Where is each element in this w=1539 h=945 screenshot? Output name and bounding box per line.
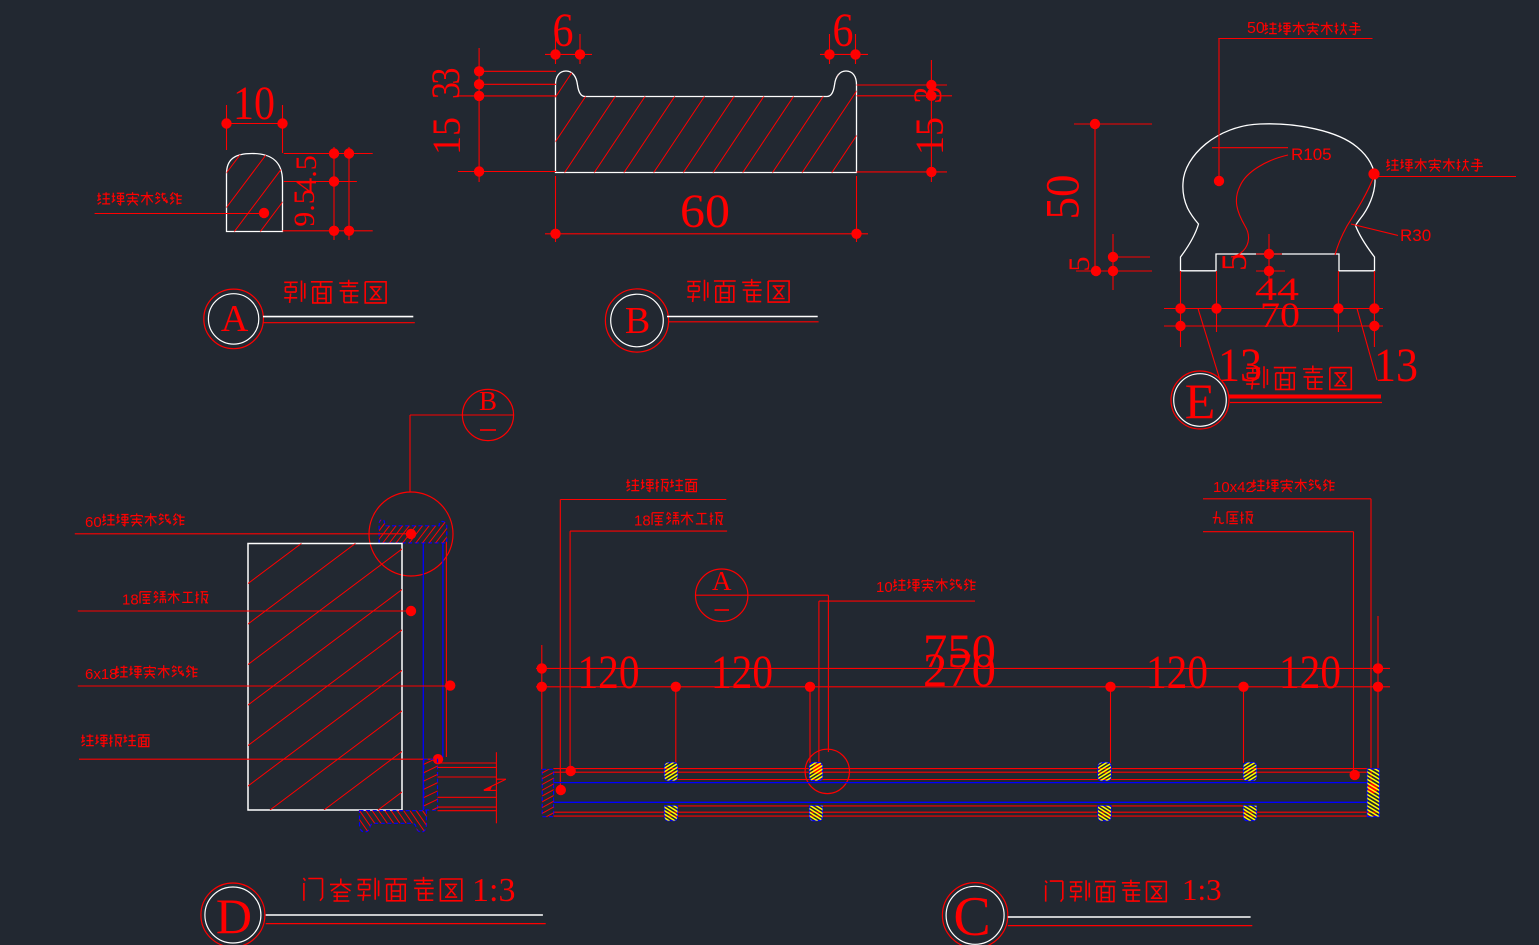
svg-text:18: 18 [122,592,139,609]
detail C bubble on panel [805,749,849,793]
notch dim 5 [1268,234,1270,292]
door panel blue core lines [553,782,1367,784]
svg-text:10: 10 [233,77,275,130]
svg-text:1:3: 1:3 [1182,872,1222,907]
detail E bottom dim extensions [1180,271,1182,347]
leader 九厘板 vertical [1353,532,1355,775]
detail E: handrail profile outline [1181,124,1376,271]
right leader spline [1335,176,1374,255]
label 10x42 underline [1203,498,1371,500]
detail D top trim hatch [343,519,474,543]
label 九厘板 underline [1203,531,1354,533]
svg-text:5: 5 [1214,253,1254,271]
detail B left dim vertical [478,48,480,182]
callout B chord [462,414,513,416]
title B underline red [668,321,819,323]
svg-text:18: 18 [634,513,651,530]
detail B right dim rails [857,84,948,86]
door panel wood blocks bottom row [665,806,678,821]
label 九厘板 [1213,511,1253,523]
title E underline thin [1230,402,1382,404]
svg-text:B: B [625,300,650,342]
title C underline white [1008,916,1251,918]
title A underline red [263,322,415,324]
svg-text:A: A [712,566,732,596]
leader 10红榉实木线条 vertical [818,601,820,769]
dim rail 70 [1164,325,1383,327]
svg-text:120: 120 [1279,646,1341,699]
title circle C [942,883,1007,945]
dim 50 vertical [1094,124,1096,271]
label 红榉实木线条 [97,192,182,206]
svg-text:60: 60 [680,185,730,238]
svg-text:3: 3 [423,68,468,85]
dim 60 extensions [555,176,557,242]
door leaf break symbol [496,778,506,780]
svg-text:3: 3 [905,87,950,104]
title C text 门剖面详图1:3 [1045,880,1166,902]
svg-text:B: B [479,386,497,416]
title B underline white [667,316,818,318]
detail D red face line [445,542,447,757]
dim 60 line [545,233,868,235]
callout A dash [715,609,730,611]
door panel left end strip [542,769,553,816]
detail D wall hatch [0,543,842,810]
R105 leader line [1212,147,1288,149]
title E text 剖面详图 [1246,366,1351,390]
leader 60红榉实木线条 [75,533,411,535]
svg-text:5: 5 [1063,257,1096,272]
detail D wall rectangle [248,544,402,811]
svg-text:13: 13 [1374,339,1418,392]
title circle D [201,883,265,945]
label 红榉板饰面 (D) [81,734,150,747]
detail D vertical strip outline [424,759,438,810]
svg-text:120: 120 [1146,646,1208,699]
title A text 剖面详图 [284,280,386,303]
detail B hatch [416,71,959,173]
svg-text:60: 60 [85,514,102,531]
leader 18厚细木工板 [78,610,411,612]
svg-text:R30: R30 [1400,226,1431,245]
detail D bubble circle [369,492,453,576]
dim 5 left small [1112,234,1114,290]
door panel right end strip (yellow) [1367,769,1379,817]
detail B left dim rails [479,70,556,72]
svg-text:70: 70 [1260,295,1300,335]
leader 10x42 vertical [1370,499,1372,788]
svg-text:4.5: 4.5 [290,155,323,193]
title D underline white [266,914,543,916]
detail A right dim rails [284,153,373,155]
detail D bottom trim hatch [328,810,451,832]
label 18厚细木工板 underline [570,530,727,532]
svg-text:1:3: 1:3 [472,872,515,909]
detail A: wood trim profile outline [227,154,283,232]
svg-text:10x42: 10x42 [1213,479,1254,496]
dim 50 top rail [1074,123,1152,125]
svg-text:C: C [953,886,990,945]
title circle E [1171,371,1229,429]
svg-text:15: 15 [424,117,469,155]
svg-text:E: E [1185,373,1216,429]
callout A chord [696,594,748,596]
title D text 门套剖面详图1:3 [303,877,461,901]
title circle A [204,289,264,349]
dim 10 extension lines [226,105,228,150]
callout circle A [696,569,748,621]
svg-text:6: 6 [833,4,854,57]
callout B dash [480,429,496,431]
label right underline [1377,176,1516,178]
R30 leader [1351,224,1398,236]
title A underline white [263,316,413,318]
svg-text:A: A [221,298,249,340]
label 红榉板饰面 (C) [626,479,697,492]
dim extension verticals C [541,645,543,769]
dim 10 line [227,123,283,125]
door panel wood blocks top row [665,763,678,781]
title C underline red [1008,925,1253,927]
svg-text:6: 6 [553,4,574,57]
detail B: wide trim profile outline [556,71,857,173]
detail D blue board lines [422,544,424,811]
leader 50... vertical [1218,39,1220,182]
detail B right dim vertical [930,60,932,182]
dim 6 left extensions [555,34,557,64]
leader 13 left [1198,309,1220,381]
leader 18厚细木工板 vertical [569,531,571,771]
title circle B [605,289,668,352]
door panel top face lines [553,768,1367,770]
svg-text:15: 15 [907,117,952,155]
dim 6 right line [820,53,868,55]
leader 13 right [1357,309,1377,381]
detail D top trim 60 outline (blue dashed) [379,520,447,543]
label leader 红榉实木线条 [95,213,264,215]
svg-text:6x18: 6x18 [85,666,118,683]
leader 红榉板饰面 vertical [559,500,561,791]
svg-text:270: 270 [923,644,996,697]
svg-text:9.5: 9.5 [288,189,321,227]
label 10红榉实木线条 underline [819,600,975,602]
label 红榉木实木扶手 right [1386,158,1483,171]
title E underline thick [1229,395,1381,399]
leader 6x18红榉实木线条 [78,685,450,687]
dim rail 750 [536,667,1390,669]
detail A right dim verticals [333,147,335,240]
dim 6 left line [545,53,592,55]
callout circle B [462,389,513,440]
label 红榉板饰面 underline [560,499,726,501]
detail A hatch [104,153,371,232]
svg-text:50: 50 [1247,20,1265,37]
dim rail 44/13 [1164,308,1383,310]
svg-text:R105: R105 [1291,145,1332,164]
callout A leader to panel [748,594,829,596]
door panel third red line [677,779,1244,781]
svg-text:120: 120 [578,646,640,699]
detail D door leaf lines [438,762,497,764]
door panel bottom face lines [553,811,1379,813]
leader 红榉板饰面 (D) [79,758,438,760]
dim 6 right extensions [829,34,831,64]
svg-text:120: 120 [711,646,773,699]
door panel lower red line [677,805,1244,807]
title D underline red [266,923,546,925]
dim rail 120 segments [536,686,1390,688]
svg-text:D: D [216,888,252,944]
detail D bottom trim outline [360,811,427,832]
svg-text:10: 10 [876,579,893,596]
svg-text:3: 3 [423,82,468,99]
svg-text:50: 50 [1037,175,1090,220]
R105 spline curve [1231,155,1288,257]
label 50... underline [1218,38,1372,40]
title B text 剖面详图 [687,279,789,302]
door leaf end vertical [495,752,497,823]
detail D vertical strip hatch [277,759,574,810]
callout B leader polyline [410,414,462,416]
